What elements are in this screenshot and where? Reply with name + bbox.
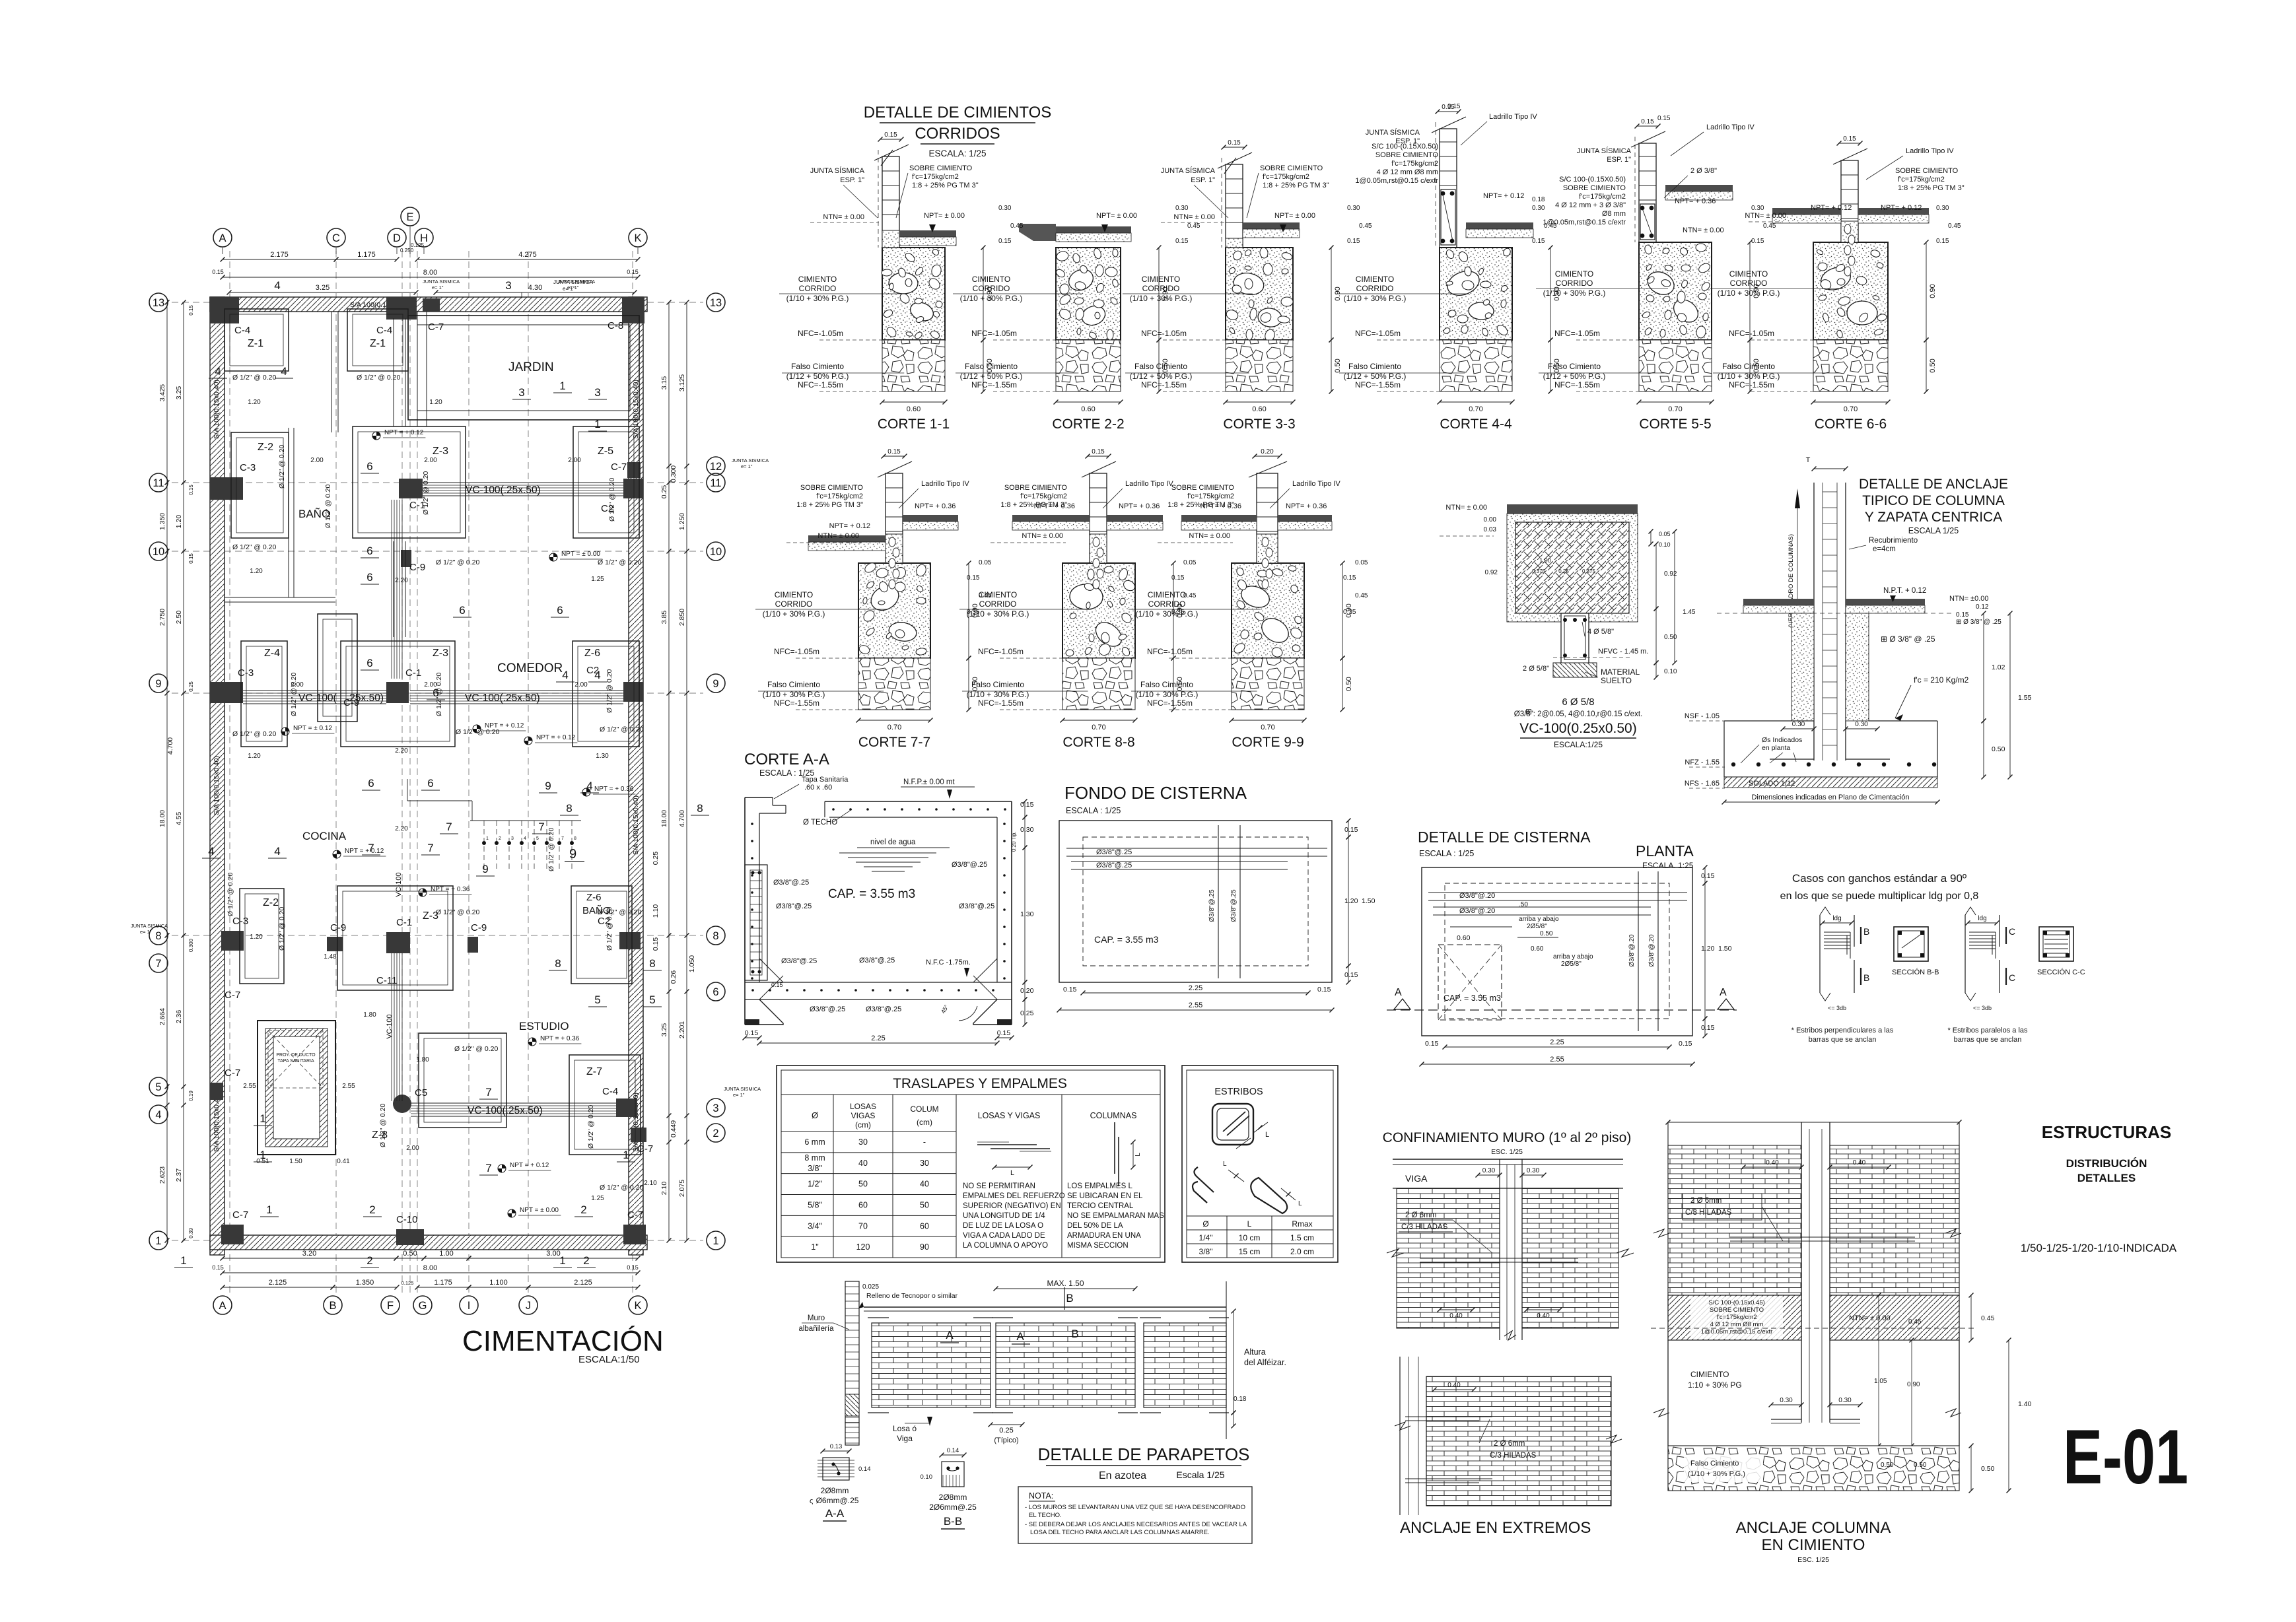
svg-text:Ø 1/2" @ 0.20: Ø 1/2" @ 0.20	[454, 1045, 498, 1053]
svg-text:Ø3/8"@.25: Ø3/8"@.25	[1230, 889, 1237, 922]
svg-text:ESCALA:1/50: ESCALA:1/50	[578, 1354, 640, 1365]
svg-text:NTN= ± 0.00: NTN= ± 0.00	[1445, 504, 1487, 512]
svg-text:0.60: 0.60	[1457, 934, 1471, 942]
svg-text:.25x.50): .25x.50)	[347, 693, 384, 704]
svg-text:7: 7	[446, 821, 452, 833]
svg-text:4: 4	[274, 279, 280, 292]
svg-text:0.25: 0.25	[660, 485, 668, 499]
svg-text:K: K	[634, 232, 641, 244]
svg-text:L: L	[1265, 1131, 1269, 1139]
svg-text:1.175: 1.175	[357, 251, 376, 259]
svg-text:Ø 1/2" @ 0.20: Ø 1/2" @ 0.20	[422, 471, 430, 515]
svg-text:1.40: 1.40	[2018, 1400, 2032, 1408]
level marker NPT = + 0.36	[528, 1038, 536, 1046]
svg-text:Ø 1/2" @ 0.20: Ø 1/2" @ 0.20	[232, 730, 276, 738]
svg-text:1.20: 1.20	[1701, 945, 1715, 953]
corte 8-8	[959, 448, 1184, 750]
svg-text:5/8": 5/8"	[808, 1200, 822, 1209]
svg-text:ldg: ldg	[1832, 915, 1841, 922]
svg-text:F: F	[387, 1300, 394, 1312]
svg-text:ESCALA 1/25: ESCALA 1/25	[1908, 526, 1959, 535]
svg-text:Ø 1/2" @ 0.20: Ø 1/2" @ 0.20	[606, 669, 613, 713]
svg-text:Z-3: Z-3	[433, 648, 448, 659]
svg-text:2.37: 2.37	[175, 1168, 183, 1182]
svg-text:C-1: C-1	[396, 917, 412, 928]
svg-text:2.00: 2.00	[568, 457, 581, 464]
svg-text:en los que se puede multiplica: en los que se puede multiplicar ldg por …	[1780, 891, 1979, 902]
svg-text:ESTUDIO: ESTUDIO	[519, 1020, 569, 1032]
svg-text:Ø3/8"@.25: Ø3/8"@.25	[1096, 848, 1132, 856]
svg-text:60: 60	[858, 1200, 868, 1209]
svg-text:0.15: 0.15	[1347, 238, 1360, 245]
svg-text:1.250: 1.250	[678, 513, 686, 530]
wall bottom row 1	[210, 1235, 647, 1250]
svg-text:ESTRUCTURAS: ESTRUCTURAS	[2042, 1122, 2171, 1142]
svg-text:9: 9	[569, 847, 576, 862]
svg-text:6: 6	[366, 657, 372, 669]
svg-text:0.15: 0.15	[1317, 986, 1331, 994]
svg-text:Ø3/8"@.25: Ø3/8"@.25	[810, 1005, 845, 1013]
svg-text:8: 8	[697, 802, 703, 815]
beam VC-100 row 3	[411, 1102, 616, 1104]
level marker NPT = + 0.36	[582, 788, 590, 796]
svg-text:S/A 100(0.15x0.40): S/A 100(0.15x0.40)	[213, 1093, 221, 1152]
svg-text:1.45: 1.45	[1683, 609, 1696, 616]
svg-text:Ø3/8"@.20: Ø3/8"@.20	[1459, 907, 1495, 915]
svg-text:NPT = + 0.36: NPT = + 0.36	[431, 886, 470, 893]
svg-text:NPT = ± 0.12: NPT = ± 0.12	[293, 725, 332, 732]
svg-text:1.30: 1.30	[1020, 910, 1034, 918]
svg-text:2 Ø 6mm: 2 Ø 6mm	[1405, 1211, 1436, 1219]
svg-text:40: 40	[858, 1159, 868, 1168]
svg-text:Relleno de Tecnopor o similar: Relleno de Tecnopor o similar	[866, 1292, 958, 1300]
svg-text:VIGAS: VIGAS	[851, 1111, 876, 1120]
svg-text:4: 4	[215, 365, 221, 378]
svg-text:6 Ø 5/8: 6 Ø 5/8	[1562, 696, 1594, 708]
svg-text:6: 6	[713, 986, 718, 998]
svg-text:C-7: C-7	[225, 990, 240, 1001]
svg-text:1.50: 1.50	[1718, 945, 1732, 953]
svg-text:0.15: 0.15	[188, 305, 194, 316]
svg-text:1: 1	[486, 836, 489, 841]
svg-text:Ø8 mm: Ø8 mm	[1602, 210, 1626, 218]
level marker NPT = ± 0.12	[281, 727, 289, 735]
svg-text:4.30: 4.30	[528, 284, 542, 292]
svg-text:K: K	[634, 1300, 641, 1312]
svg-text:Ø3/8"@.20: Ø3/8"@.20	[1459, 892, 1495, 900]
svg-text:2.25: 2.25	[1189, 984, 1202, 992]
svg-text:S/A 100(0.15x0.40): S/A 100(0.15x0.40)	[632, 795, 640, 855]
svg-text:Losa ó: Losa ó	[893, 1424, 917, 1433]
svg-text:1.80: 1.80	[363, 1011, 376, 1019]
svg-text:S/C 100-(0.15x0.45): S/C 100-(0.15x0.45)	[1708, 1299, 1765, 1306]
svg-text:Ø3/8": 2@0.05, 4@0.10,r@0.15 c: Ø3/8": 2@0.05, 4@0.10,r@0.15 c/ext.	[1514, 710, 1642, 718]
svg-text:NFVC - 1.45 m.: NFVC - 1.45 m.	[1598, 648, 1648, 656]
svg-text:0.45: 0.45	[1183, 592, 1197, 599]
svg-text:JUNTA SÍSMICA: JUNTA SÍSMICA	[1366, 128, 1420, 137]
svg-text:NPT= + 0.12: NPT= + 0.12	[829, 522, 870, 530]
svg-text:NFC=-1.05m: NFC=-1.05m	[1729, 329, 1774, 338]
svg-text:NPT = ± 0.00: NPT = ± 0.00	[561, 551, 600, 558]
svg-text:2.0 cm: 2.0 cm	[1290, 1247, 1314, 1256]
svg-text:E: E	[406, 211, 413, 223]
svg-text:Ø 1/2" @ 0.20: Ø 1/2" @ 0.20	[278, 445, 286, 489]
svg-text:1: 1	[559, 1254, 565, 1267]
svg-text:90: 90	[920, 1242, 929, 1252]
svg-text:0.30: 0.30	[1020, 826, 1034, 834]
svg-text:CORRIDO: CORRIDO	[973, 284, 1010, 293]
svg-text:0.10: 0.10	[921, 1473, 933, 1481]
svg-text:SECCIÓN C-C: SECCIÓN C-C	[2037, 968, 2085, 976]
svg-text:CIMIENTO: CIMIENTO	[1690, 1370, 1729, 1379]
svg-text:Ladrillo Tipo IV: Ladrillo Tipo IV	[1489, 113, 1537, 121]
svg-text:-: -	[923, 1137, 926, 1147]
svg-text:Ø3/8"@.25: Ø3/8"@.25	[773, 879, 809, 887]
svg-text:6: 6	[433, 687, 438, 699]
svg-text:CORTE 6-6: CORTE 6-6	[1815, 417, 1887, 432]
svg-text:NTN= ±0.00: NTN= ±0.00	[1949, 595, 1989, 603]
svg-text:0.30: 0.30	[1855, 721, 1868, 728]
svg-text:(1/10 + 30% P.G.): (1/10 + 30% P.G.)	[1543, 288, 1606, 298]
svg-text:Falso Cimiento: Falso Cimiento	[965, 362, 1018, 371]
svg-text:B: B	[1066, 1292, 1073, 1304]
svg-text:N.P.T. + 0.12: N.P.T. + 0.12	[1883, 587, 1926, 595]
svg-text:1:8 + 25% PG TM 3": 1:8 + 25% PG TM 3"	[1898, 184, 1965, 192]
svg-text:SOBRE CIMIENTO: SOBRE CIMIENTO	[1710, 1306, 1764, 1314]
svg-text:4: 4	[594, 669, 600, 681]
svg-text:C/3 HILADAS: C/3 HILADAS	[1401, 1223, 1448, 1231]
svg-text:1/2": 1/2"	[808, 1180, 822, 1189]
svg-text:CORRIDO: CORRIDO	[1148, 599, 1186, 609]
svg-text:NTN= ± 0.00: NTN= ± 0.00	[1745, 212, 1786, 220]
svg-text:0.15: 0.15	[1228, 139, 1241, 147]
svg-text:Falso Cimiento: Falso Cimiento	[1548, 362, 1601, 371]
svg-text:<= 3db: <= 3db	[1828, 1005, 1846, 1011]
svg-text:NTN= ± 0.00: NTN= ± 0.00	[818, 532, 859, 540]
svg-text:10 cm: 10 cm	[1239, 1233, 1261, 1242]
svg-text:0.50: 0.50	[1914, 1462, 1927, 1469]
svg-text:JUNTA SÍSMICA: JUNTA SÍSMICA	[810, 166, 865, 175]
svg-text:7: 7	[368, 842, 374, 854]
svg-text:SOLADO 1/12: SOLADO 1/12	[1749, 780, 1795, 788]
svg-text:0.15: 0.15	[188, 553, 194, 564]
svg-text:CIMIENTO: CIMIENTO	[1148, 590, 1186, 599]
level marker NPT = + 0.12	[524, 737, 532, 745]
svg-text:2Ø5/8": 2Ø5/8"	[1561, 961, 1582, 968]
svg-text:NFC=-1.55m: NFC=-1.55m	[774, 698, 819, 708]
svg-text:0.05: 0.05	[1183, 559, 1197, 566]
svg-text:8.00: 8.00	[423, 1264, 437, 1272]
svg-text:1:8 + 25% PG TM 3": 1:8 + 25% PG TM 3"	[1263, 182, 1329, 189]
svg-text:8: 8	[555, 957, 561, 970]
cisterna plan	[258, 1021, 335, 1155]
svg-text:4.55: 4.55	[175, 812, 183, 826]
svg-text:11: 11	[153, 477, 164, 489]
svg-text:T: T	[1806, 456, 1811, 464]
svg-text:CONFINAMIENTO MURO (1º al 2º p: CONFINAMIENTO MURO (1º al 2º piso)	[1383, 1130, 1632, 1145]
parapet brick panel	[872, 1323, 991, 1407]
svg-text:NO SE EMPALMARAN MAS: NO SE EMPALMARAN MAS	[1067, 1212, 1164, 1220]
svg-text:2.125: 2.125	[269, 1279, 287, 1287]
svg-text:5: 5	[536, 836, 539, 841]
svg-text:Y ZAPATA CENTRICA: Y ZAPATA CENTRICA	[1865, 510, 2002, 525]
svg-text:0.60: 0.60	[1252, 405, 1266, 413]
svg-text:(1/10 + 30% P.G.): (1/10 + 30% P.G.)	[1130, 294, 1193, 303]
svg-text:CIMENTACIÓN: CIMENTACIÓN	[462, 1325, 664, 1357]
svg-text:0.39: 0.39	[188, 1228, 194, 1238]
svg-text:0.45: 0.45	[1544, 222, 1557, 230]
svg-text:0.15: 0.15	[212, 1264, 224, 1271]
svg-text:2.55: 2.55	[1550, 1056, 1564, 1064]
svg-text:L: L	[1247, 1219, 1252, 1229]
svg-text:2.664: 2.664	[158, 1008, 166, 1025]
svg-text:0.15: 0.15	[887, 448, 901, 456]
estribos box	[1182, 1065, 1338, 1262]
svg-text:ANCLAJE EN EXTREMOS: ANCLAJE EN EXTREMOS	[1400, 1519, 1591, 1537]
svg-text:NFC=-1.55m: NFC=-1.55m	[1147, 698, 1193, 708]
svg-text:C-8: C-8	[608, 320, 623, 331]
svg-text:MAX. 1.50: MAX. 1.50	[1047, 1279, 1084, 1288]
svg-text:4 Ø 5/8": 4 Ø 5/8"	[1587, 628, 1614, 636]
svg-text:1:8 + 25% PG TM 3": 1:8 + 25% PG TM 3"	[912, 182, 979, 189]
svg-text:30: 30	[920, 1159, 929, 1168]
svg-text:0.15: 0.15	[1532, 238, 1545, 245]
svg-text:3.125: 3.125	[678, 374, 686, 391]
svg-text:CORRIDO: CORRIDO	[1142, 284, 1180, 293]
svg-text:Ø6mm@.25: Ø6mm@.25	[816, 1496, 859, 1505]
corte 2-2	[953, 224, 1169, 432]
svg-text:4: 4	[524, 836, 526, 841]
svg-text:ESCALA : 1/25: ESCALA : 1/25	[1066, 806, 1121, 815]
svg-text:NFC=-1.05m: NFC=-1.05m	[1147, 647, 1193, 656]
svg-text:f'c=175kg/cm2: f'c=175kg/cm2	[912, 173, 959, 181]
svg-text:albañilería: albañilería	[798, 1325, 834, 1333]
svg-text:2Ø8mm: 2Ø8mm	[821, 1486, 849, 1495]
svg-text:0.15: 0.15	[745, 1029, 759, 1037]
svg-text:Ø3/8"@.25: Ø3/8"@.25	[859, 957, 895, 964]
svg-text:6 mm: 6 mm	[804, 1137, 825, 1147]
svg-text:1: 1	[623, 1149, 629, 1161]
level marker NPT = + 0.12	[473, 725, 481, 733]
svg-text:- SE DEBERA DEJAR LOS ANCLAJES: - SE DEBERA DEJAR LOS ANCLAJES NECESARIO…	[1025, 1521, 1247, 1528]
svg-text:COLUMNAS: COLUMNAS	[1090, 1111, 1137, 1120]
svg-text:5: 5	[594, 994, 600, 1006]
svg-text:2: 2	[713, 1128, 718, 1139]
svg-text:0.45: 0.45	[1908, 1318, 1922, 1326]
svg-text:Ø3/8"@.25: Ø3/8"@.25	[959, 902, 994, 910]
svg-text:13: 13	[710, 297, 722, 309]
svg-text:NPT= + 0.12: NPT= + 0.12	[1483, 192, 1524, 200]
detalle de parapetos	[798, 1279, 1286, 1543]
svg-text:7: 7	[561, 836, 564, 841]
svg-text:Falso Cimiento: Falso Cimiento	[1348, 362, 1401, 371]
svg-text:(1/10 + 30% P.G.): (1/10 + 30% P.G.)	[1136, 609, 1199, 619]
svg-text:0.025: 0.025	[862, 1283, 879, 1291]
svg-text:NFC=-1.55m: NFC=-1.55m	[1355, 380, 1401, 389]
svg-text:0.300: 0.300	[670, 465, 678, 483]
svg-text:Z-3: Z-3	[433, 446, 448, 457]
svg-text:0.60: 0.60	[1531, 945, 1544, 953]
corte 7-7	[755, 448, 979, 750]
svg-text:0.40: 0.40	[1447, 1382, 1461, 1389]
svg-text:1: 1	[713, 1235, 718, 1247]
svg-text:e= 1": e= 1"	[140, 929, 152, 935]
svg-text:0.15: 0.15	[627, 1264, 639, 1271]
svg-text:2: 2	[366, 1254, 372, 1267]
svg-text:3.25: 3.25	[660, 1023, 668, 1037]
svg-text:CIMIENTO: CIMIENTO	[798, 275, 837, 284]
svg-text:NPT= + 0.36: NPT= + 0.36	[1200, 502, 1241, 510]
svg-text:VC-100(.25x.50): VC-100(.25x.50)	[468, 1105, 543, 1116]
svg-text:2Ø5/8": 2Ø5/8"	[1527, 923, 1547, 930]
svg-text:ESP. 1": ESP. 1"	[1395, 137, 1420, 145]
svg-text:L: L	[1134, 1153, 1142, 1157]
svg-text:f'c = 210 Kg/m2: f'c = 210 Kg/m2	[1914, 675, 1969, 685]
svg-text:Ø3/8"@.20: Ø3/8"@.20	[1648, 934, 1655, 967]
svg-text:6: 6	[427, 777, 433, 790]
svg-text:NPT = + 0.12: NPT = + 0.12	[510, 1162, 549, 1169]
svg-text:C-1: C-1	[405, 667, 421, 679]
svg-text:0.15: 0.15	[1020, 801, 1034, 809]
svg-text:NFC=-1.05m: NFC=-1.05m	[798, 329, 843, 338]
svg-text:CORRIDOS: CORRIDOS	[915, 125, 1000, 143]
svg-text:50: 50	[858, 1180, 868, 1189]
grid bubbles right	[707, 293, 725, 312]
svg-text:2.00: 2.00	[424, 457, 437, 464]
svg-text:TIPICO DE COLUMNA: TIPICO DE COLUMNA	[1862, 493, 2005, 508]
svg-text:ESP. 1": ESP. 1"	[840, 176, 864, 184]
svg-text:LOSA DEL TECHO PARA ANCLAR LAS: LOSA DEL TECHO PARA ANCLAR LAS COLUMNAS …	[1030, 1529, 1210, 1536]
svg-text:A-A: A-A	[825, 1507, 845, 1520]
svg-text:JUNTA SÍSMICA: JUNTA SÍSMICA	[1577, 147, 1632, 155]
svg-text:C5: C5	[415, 1087, 427, 1098]
svg-text:<= 3db: <= 3db	[1973, 1005, 1992, 1011]
svg-text:DETALLE DE CIMIENTOS: DETALLE DE CIMIENTOS	[864, 104, 1052, 121]
svg-text:NTN= ± 0.00: NTN= ± 0.00	[1849, 1314, 1891, 1322]
anclaje en extremos	[1395, 1357, 1622, 1537]
svg-text:Ø 1/2" @ 0.20: Ø 1/2" @ 0.20	[232, 543, 276, 551]
svg-text:TERCIO CENTRAL: TERCIO CENTRAL	[1067, 1202, 1134, 1210]
svg-text:NFC=-1.05m: NFC=-1.05m	[971, 329, 1017, 338]
svg-text:2 Ø 6mm: 2 Ø 6mm	[1494, 1440, 1525, 1448]
svg-text:SOBRE CIMIENTO: SOBRE CIMIENTO	[1895, 167, 1959, 175]
svg-text:CAP. = 3.55 m3: CAP. = 3.55 m3	[1094, 934, 1159, 945]
detalle de cisterna planta	[1387, 828, 1737, 1067]
svg-text:NTN= ± 0.00: NTN= ± 0.00	[1683, 226, 1724, 234]
grid axes dashed	[229, 251, 230, 1294]
svg-text:JUNTA SÍSMICA: JUNTA SÍSMICA	[1161, 166, 1216, 175]
svg-text:C-4: C-4	[376, 325, 392, 336]
svg-text:Ø 1/2" @ 0.20: Ø 1/2" @ 0.20	[598, 908, 641, 916]
svg-text:Z-6: Z-6	[584, 648, 600, 659]
svg-text:D: D	[393, 232, 401, 244]
svg-text:VC-100(.25x.50): VC-100(.25x.50)	[466, 485, 541, 496]
grid bubbles top	[213, 228, 232, 247]
svg-text:3.425: 3.425	[158, 384, 166, 401]
svg-text:2.55: 2.55	[342, 1083, 355, 1090]
level marker NPT = + 0.36	[419, 889, 427, 896]
svg-text:CAP. = 3.55 m3: CAP. = 3.55 m3	[1444, 994, 1501, 1003]
svg-text:0.15: 0.15	[1175, 238, 1189, 245]
corte 1-1	[779, 131, 994, 432]
svg-text:N.F.P.± 0.00 mt: N.F.P.± 0.00 mt	[903, 778, 955, 786]
svg-text:C: C	[2009, 926, 2015, 937]
svg-text:PROY. DE DUCTO: PROY. DE DUCTO	[276, 1053, 316, 1058]
detail VC-100(0.25x0.50)	[1440, 504, 1696, 749]
svg-text:2 Ø 5/8": 2 Ø 5/8"	[1523, 665, 1549, 673]
svg-text:(1/10 + 30% P.G.): (1/10 + 30% P.G.)	[763, 609, 825, 619]
svg-text:NPT= ± 0.00: NPT= ± 0.00	[1096, 212, 1137, 220]
svg-text:ESCALA:1/25: ESCALA:1/25	[1554, 740, 1603, 749]
svg-text:8: 8	[574, 836, 576, 841]
svg-text:Ø3/8"@.20: Ø3/8"@.20	[1628, 934, 1636, 967]
svg-text:8: 8	[566, 802, 572, 815]
svg-text:1.00: 1.00	[1539, 557, 1551, 564]
svg-text:1: 1	[266, 1203, 272, 1216]
svg-text:0.90: 0.90	[1907, 1381, 1920, 1388]
svg-text:3.20: 3.20	[302, 1250, 316, 1258]
svg-text:1.05: 1.05	[1874, 1378, 1887, 1385]
seccion B-B parapeto	[942, 1462, 964, 1487]
svg-text:PLANTA: PLANTA	[1636, 842, 1694, 860]
svg-text:9: 9	[482, 863, 488, 875]
svg-text:2: 2	[369, 1203, 375, 1216]
svg-text:Ø 1/2" @ 0.20: Ø 1/2" @ 0.20	[226, 873, 234, 916]
svg-text:⊞: ⊞	[1525, 707, 1532, 716]
svg-text:NO SE PERMITIRAN: NO SE PERMITIRAN	[963, 1182, 1035, 1190]
svg-text:S/A 100(0.15x0.40): S/A 100(0.15x0.40)	[213, 756, 221, 815]
svg-text:Ø 1/2" @ 0.20: Ø 1/2" @ 0.20	[324, 485, 332, 528]
svg-text:8: 8	[649, 957, 655, 970]
svg-text:0.30: 0.30	[1527, 1167, 1540, 1174]
svg-text:J: J	[526, 1300, 531, 1312]
svg-text:.50: .50	[1519, 901, 1528, 908]
svg-text:NPT = + 0.36: NPT = + 0.36	[594, 786, 634, 793]
svg-text:Falso Cimiento: Falso Cimiento	[1134, 362, 1187, 371]
svg-text:CIMIENTO: CIMIENTO	[972, 275, 1010, 284]
svg-text:B: B	[329, 1300, 336, 1312]
svg-text:6: 6	[557, 604, 563, 617]
svg-text:7: 7	[485, 1162, 491, 1174]
svg-text:Ø 1/2" @ 0.20: Ø 1/2" @ 0.20	[379, 1104, 387, 1147]
svg-text:8: 8	[155, 930, 161, 942]
svg-text:NPT= + 0.36: NPT= + 0.36	[1119, 502, 1160, 510]
svg-text:Dimensiones indicadas en Plano: Dimensiones indicadas en Plano de Ciment…	[1751, 794, 1909, 801]
svg-text:1.50: 1.50	[1362, 897, 1375, 905]
parapet brick panel	[996, 1323, 1135, 1407]
svg-text:2.10: 2.10	[660, 1182, 668, 1196]
wall right axis K	[629, 297, 643, 1255]
svg-text:3: 3	[713, 1102, 718, 1114]
svg-text:N.F.C -1.75m.: N.F.C -1.75m.	[926, 959, 971, 966]
svg-text:SOBRE CIMIENTO: SOBRE CIMIENTO	[1260, 164, 1323, 172]
corte 6-6	[1710, 135, 1937, 432]
grid bubbles left	[149, 293, 168, 312]
svg-text:NSF - 1.05: NSF - 1.05	[1685, 712, 1720, 720]
svg-text:1.25: 1.25	[591, 576, 604, 583]
svg-text:8: 8	[713, 930, 718, 942]
svg-text:0.25: 0.25	[1558, 568, 1569, 574]
svg-text:C/3 HILADAS: C/3 HILADAS	[1490, 1452, 1537, 1460]
stairs dashed	[483, 821, 485, 871]
svg-text:Ø 1/2" @ 0.20: Ø 1/2" @ 0.20	[290, 673, 298, 716]
svg-text:0.30: 0.30	[1347, 205, 1360, 212]
svg-text:JARDIN: JARDIN	[508, 360, 554, 374]
svg-text:CORTE 3-3: CORTE 3-3	[1223, 417, 1295, 432]
svg-text:0.15: 0.15	[1956, 611, 1969, 619]
svg-text:0.26: 0.26	[670, 970, 678, 984]
svg-text:0.45: 0.45	[1010, 222, 1024, 230]
